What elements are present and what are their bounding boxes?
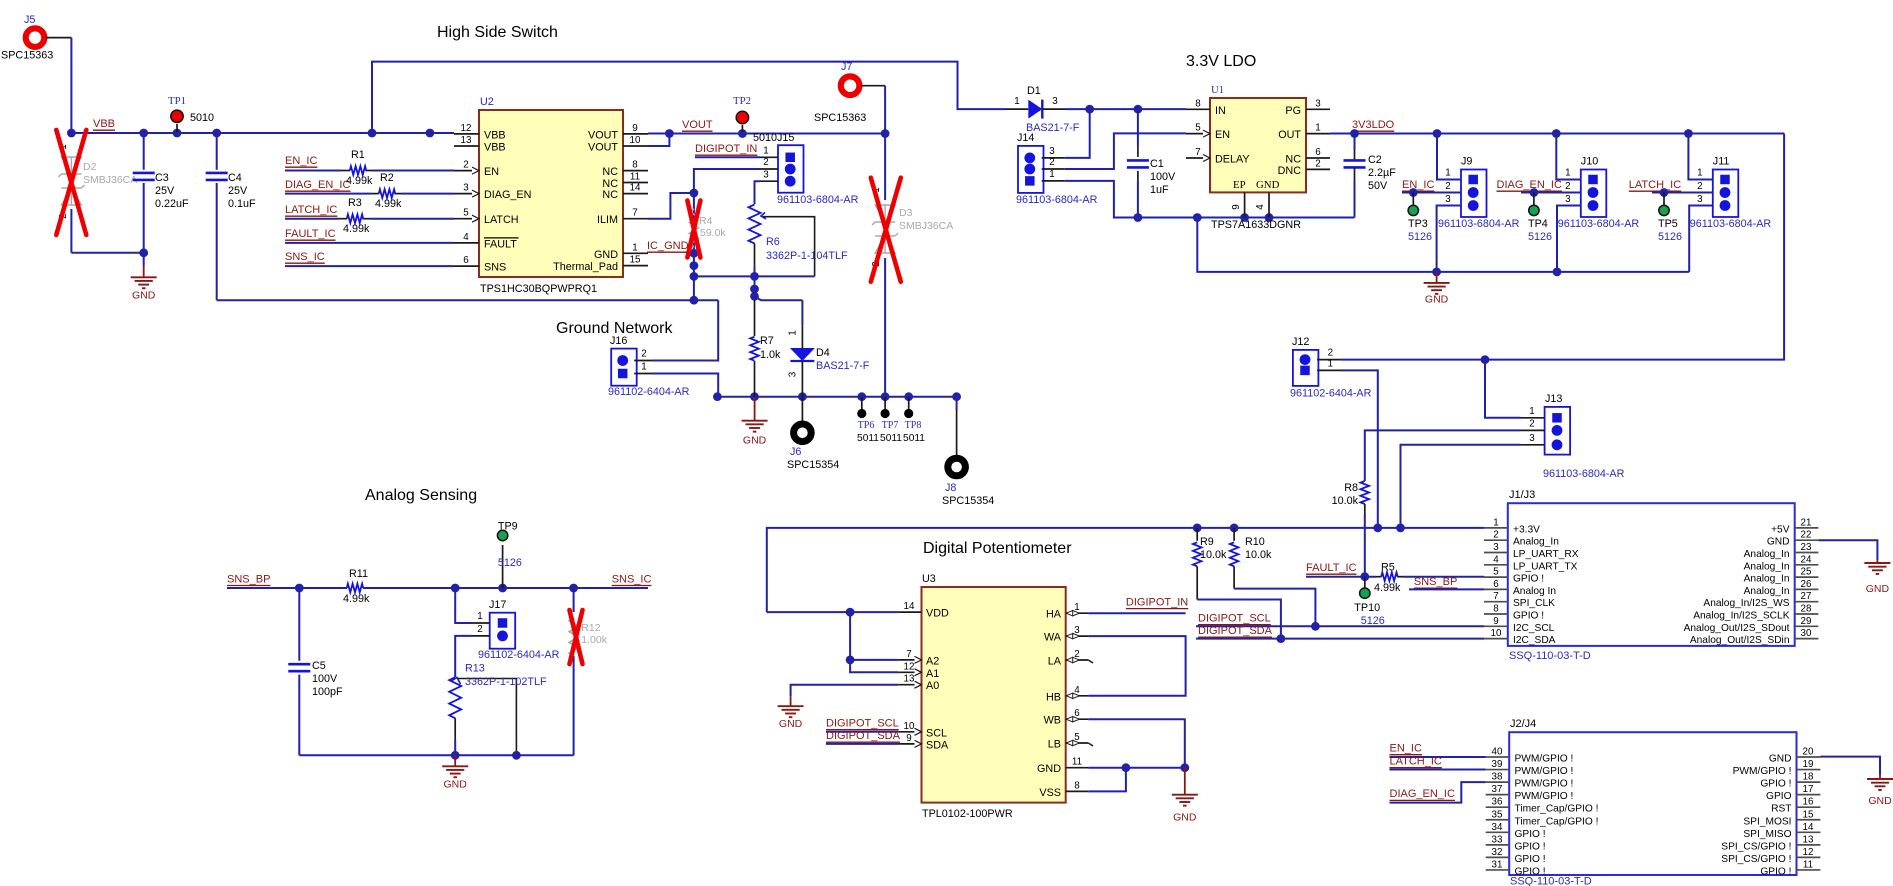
resistor R12 (not fitted) bbox=[573, 588, 575, 612]
svg-text:GPIO !: GPIO ! bbox=[1515, 866, 1546, 877]
svg-text:2: 2 bbox=[463, 160, 468, 171]
connector J7 bbox=[841, 76, 860, 95]
svg-text:17: 17 bbox=[1803, 784, 1814, 795]
svg-text:DIGIPOT_SDA: DIGIPOT_SDA bbox=[1198, 625, 1273, 637]
svg-text:100V: 100V bbox=[1150, 171, 1176, 183]
svg-text:1: 1 bbox=[1697, 168, 1702, 179]
test point TP6 bbox=[861, 397, 863, 409]
J1/J3 pin 2 Analog_In bbox=[1484, 539, 1508, 541]
svg-text:SPC15363: SPC15363 bbox=[814, 112, 866, 124]
regulator U1 TPS7A1633DGNR bbox=[1210, 98, 1306, 192]
svg-text:Analog_In: Analog_In bbox=[1744, 549, 1790, 560]
J2/J4 pin 19 PWM/GPIO ! bbox=[1797, 769, 1821, 771]
wire R4/R6 bottom rail bbox=[694, 275, 815, 277]
svg-text:1: 1 bbox=[788, 330, 799, 335]
svg-text:VDD: VDD bbox=[926, 608, 949, 620]
svg-text:3: 3 bbox=[1445, 194, 1451, 205]
J1/J3 pin 5 GPIO ! bbox=[1484, 576, 1508, 578]
U1 pin 6 NC bbox=[1306, 157, 1330, 159]
svg-text:LA: LA bbox=[1048, 656, 1062, 668]
svg-text:EN: EN bbox=[1215, 129, 1230, 141]
svg-text:J17: J17 bbox=[489, 599, 506, 611]
wire DIAG_EN_IC to J2 pin38 bbox=[1390, 782, 1486, 803]
wire J13 pin2 to R8 bbox=[1365, 430, 1521, 481]
svg-text:SPC15363: SPC15363 bbox=[1, 50, 53, 62]
svg-text:961103-6804-AR: 961103-6804-AR bbox=[1016, 194, 1098, 206]
ground bbox=[1184, 768, 1186, 795]
J2/J4 pin 33 GPIO ! bbox=[1486, 844, 1510, 846]
digipot U3 TPL0102-100PWR bbox=[922, 587, 1066, 803]
svg-text:R6: R6 bbox=[766, 236, 780, 248]
svg-text:5: 5 bbox=[463, 208, 469, 219]
svg-text:R2: R2 bbox=[380, 172, 394, 184]
svg-text:961103-6804-AR: 961103-6804-AR bbox=[1438, 218, 1520, 230]
connector J13 bbox=[1545, 407, 1571, 455]
svg-text:EN_IC: EN_IC bbox=[285, 155, 317, 167]
svg-text:J14: J14 bbox=[1017, 132, 1034, 144]
svg-text:12: 12 bbox=[904, 661, 915, 672]
svg-text:TPS1HC30BQPWPRQ1: TPS1HC30BQPWPRQ1 bbox=[480, 283, 597, 295]
svg-text:SNS_BP: SNS_BP bbox=[1414, 576, 1457, 588]
svg-text:LB: LB bbox=[1048, 739, 1061, 751]
U2 pin 2 EN bbox=[454, 170, 479, 172]
diode D4 bbox=[755, 296, 803, 300]
svg-text:DNC: DNC bbox=[1278, 165, 1302, 177]
svg-text:39: 39 bbox=[1492, 759, 1503, 770]
svg-text:I2C_SDA: I2C_SDA bbox=[1513, 635, 1556, 646]
U2 pin 7 ILIM bbox=[623, 218, 648, 220]
svg-text:LATCH_IC: LATCH_IC bbox=[1390, 756, 1442, 768]
wire D1 to U1 IN bbox=[1066, 108, 1186, 110]
svg-text:4.99k: 4.99k bbox=[343, 593, 370, 605]
svg-text:1: 1 bbox=[1049, 169, 1054, 180]
svg-text:PWM/GPIO !: PWM/GPIO ! bbox=[1515, 766, 1574, 777]
connector J15 bbox=[778, 145, 804, 193]
capacitor C4 bbox=[216, 133, 218, 170]
svg-text:13: 13 bbox=[1803, 834, 1814, 845]
svg-text:Analog In: Analog In bbox=[1513, 586, 1556, 597]
connector J16 bbox=[611, 349, 637, 386]
U1 pin 8 IN bbox=[1186, 108, 1210, 110]
svg-text:TPS7A1633DGNR: TPS7A1633DGNR bbox=[1211, 219, 1301, 231]
svg-text:A2: A2 bbox=[926, 655, 939, 667]
svg-text:2: 2 bbox=[763, 157, 768, 168]
test point TP4 bbox=[1533, 193, 1535, 206]
J2/J4 pin 20 GND bbox=[1797, 756, 1821, 758]
svg-text:3: 3 bbox=[1697, 194, 1703, 205]
svg-text:37: 37 bbox=[1492, 784, 1503, 795]
J1/J3 pin 26 Analog_In bbox=[1795, 588, 1819, 590]
wire U3 VSS bbox=[1088, 768, 1126, 792]
svg-text:Analog_Out/I2S_SDout: Analog_Out/I2S_SDout bbox=[1684, 623, 1790, 634]
J1/J3 pin 29 Analog_Out/I2S_SDout bbox=[1795, 625, 1819, 627]
svg-text:1uF: 1uF bbox=[1150, 184, 1169, 196]
svg-text:27: 27 bbox=[1801, 591, 1812, 602]
svg-text:EN_IC: EN_IC bbox=[1402, 179, 1434, 191]
svg-text:2: 2 bbox=[1328, 348, 1333, 359]
svg-text:PG: PG bbox=[1285, 105, 1301, 117]
svg-text:40: 40 bbox=[1492, 747, 1503, 758]
svg-text:J13: J13 bbox=[1545, 393, 1562, 405]
svg-text:6: 6 bbox=[463, 255, 469, 266]
svg-text:5011: 5011 bbox=[857, 433, 879, 444]
svg-text:PWM/GPIO !: PWM/GPIO ! bbox=[1515, 779, 1574, 790]
svg-text:SPI_MOSI: SPI_MOSI bbox=[1743, 816, 1791, 827]
svg-text:HB: HB bbox=[1046, 691, 1061, 703]
J1/J3 pin 6 Analog In bbox=[1484, 588, 1508, 590]
potentiometer R13 bbox=[449, 677, 461, 718]
svg-text:4.99k: 4.99k bbox=[375, 198, 402, 210]
svg-text:961102-6404-AR: 961102-6404-AR bbox=[478, 649, 560, 661]
test point TP9 bbox=[502, 545, 504, 588]
resistor R2 bbox=[379, 189, 395, 198]
svg-text:GND: GND bbox=[594, 249, 618, 261]
wire A2 A1 tie to VDD bbox=[850, 612, 898, 660]
svg-text:5126: 5126 bbox=[1658, 231, 1682, 243]
svg-text:1: 1 bbox=[1493, 517, 1498, 528]
svg-text:RST: RST bbox=[1771, 804, 1791, 815]
svg-text:GND: GND bbox=[1767, 537, 1790, 548]
svg-text:3V3LDO: 3V3LDO bbox=[1352, 119, 1395, 131]
U2 pin 13 VBB bbox=[454, 145, 479, 147]
svg-text:TP4: TP4 bbox=[1528, 218, 1548, 230]
wire 3V3LDO down right side to J12 rail bbox=[1341, 134, 1784, 360]
svg-text:14: 14 bbox=[904, 601, 915, 612]
wire DIGIPOT_SCL bbox=[1196, 625, 1484, 627]
wire D2/C3 to ground bbox=[71, 252, 143, 254]
connector J10 bbox=[1581, 170, 1607, 218]
svg-text:D3: D3 bbox=[899, 207, 913, 219]
ground bbox=[454, 755, 456, 766]
svg-text:25V: 25V bbox=[228, 185, 248, 197]
wire J11 pin3 to gnd bus bbox=[1689, 206, 1713, 272]
svg-text:+5V: +5V bbox=[1771, 524, 1790, 535]
svg-text:TP3: TP3 bbox=[1408, 218, 1428, 230]
svg-text:5: 5 bbox=[1195, 123, 1201, 134]
svg-text:Digital Potentiometer: Digital Potentiometer bbox=[923, 540, 1072, 557]
ground bbox=[1436, 272, 1438, 283]
svg-text:LATCH: LATCH bbox=[484, 214, 519, 226]
U2 pin 8 NC bbox=[623, 170, 648, 172]
svg-text:WA: WA bbox=[1044, 632, 1062, 644]
svg-text:HA: HA bbox=[1046, 609, 1062, 621]
U2 pin 4 FAULT bbox=[454, 242, 479, 244]
svg-text:14: 14 bbox=[1803, 822, 1814, 833]
U2 pin 6 SNS bbox=[454, 265, 479, 267]
wire J14 pin1 to gnd rail bbox=[1064, 181, 1354, 218]
J1/J3 pin 7 SPI_CLK bbox=[1484, 601, 1508, 603]
svg-text:J5: J5 bbox=[24, 14, 35, 26]
wire 3V3LDO to J9 pin1 bbox=[1437, 134, 1461, 180]
svg-text:TP1: TP1 bbox=[168, 95, 186, 107]
wire EN_IC bbox=[285, 170, 342, 172]
svg-text:2.2µF: 2.2µF bbox=[1368, 167, 1396, 179]
wire J15 pin3 to R6 bbox=[755, 181, 761, 204]
svg-text:9: 9 bbox=[1493, 616, 1498, 627]
wire DIGIPOT_IN to J15 pin1 bbox=[695, 156, 760, 158]
svg-text:R5: R5 bbox=[1381, 562, 1395, 574]
wire J12 pin1 to 3.3V rail bbox=[1341, 370, 1378, 528]
U3 pin 9 SDA bbox=[898, 743, 921, 745]
svg-text:GPIO !: GPIO ! bbox=[1515, 829, 1546, 840]
svg-text:29: 29 bbox=[1801, 616, 1812, 627]
svg-text:DIAG_EN_IC: DIAG_EN_IC bbox=[1497, 179, 1562, 191]
svg-text:SPI_MISO: SPI_MISO bbox=[1743, 829, 1791, 840]
svg-text:4.99k: 4.99k bbox=[1374, 582, 1401, 594]
svg-text:VBB: VBB bbox=[93, 118, 115, 130]
svg-text:3.3V LDO: 3.3V LDO bbox=[1186, 53, 1256, 70]
wire VDD from 3.3V rail bbox=[767, 611, 898, 613]
svg-text:GPIO !: GPIO ! bbox=[1760, 779, 1791, 790]
svg-text:GND: GND bbox=[1866, 583, 1890, 595]
svg-text:22: 22 bbox=[1801, 530, 1812, 541]
wire J13 pin1 from J12 rail bbox=[1485, 360, 1521, 418]
cross-out X over D2 bbox=[56, 130, 86, 235]
svg-text:4: 4 bbox=[463, 232, 469, 243]
svg-text:31: 31 bbox=[1492, 859, 1503, 870]
wire J2 pin20 GND bbox=[1820, 757, 1880, 775]
J2/J4 pin 11 GPIO ! bbox=[1797, 869, 1821, 871]
svg-text:TP5: TP5 bbox=[1658, 218, 1678, 230]
svg-text:J8: J8 bbox=[945, 482, 956, 494]
svg-text:961103-6804-AR: 961103-6804-AR bbox=[777, 194, 859, 206]
svg-text:Timer_Cap/GPIO !: Timer_Cap/GPIO ! bbox=[1515, 804, 1599, 815]
svg-text:13: 13 bbox=[904, 674, 915, 685]
svg-text:34: 34 bbox=[1492, 822, 1503, 833]
svg-text:EN: EN bbox=[484, 166, 499, 178]
svg-text:TP6: TP6 bbox=[858, 420, 875, 431]
svg-text:GND: GND bbox=[1769, 754, 1792, 765]
svg-text:SNS: SNS bbox=[484, 262, 506, 274]
test point TP7 bbox=[884, 397, 886, 409]
svg-text:1.0k: 1.0k bbox=[760, 349, 781, 361]
svg-text:GND: GND bbox=[1425, 293, 1449, 305]
resistor R3 bbox=[347, 214, 363, 223]
svg-text:GND: GND bbox=[1037, 763, 1061, 775]
connector J2/J4 SSQ-110-03-T-D bbox=[1509, 732, 1796, 875]
U2 pin 12 VBB bbox=[454, 133, 479, 135]
wire analog gnd rail bbox=[299, 754, 573, 756]
svg-text:1: 1 bbox=[763, 146, 768, 157]
svg-text:1: 1 bbox=[632, 242, 637, 253]
test point TP8 bbox=[908, 397, 910, 409]
svg-text:D1: D1 bbox=[1027, 85, 1041, 97]
svg-text:11: 11 bbox=[1803, 859, 1813, 870]
J1/J3 pin 22 GND bbox=[1795, 539, 1819, 541]
cross-out X over R12 bbox=[570, 610, 583, 664]
svg-text:TP10: TP10 bbox=[1354, 602, 1380, 614]
J1/J3 pin 27 Analog_In/I2S_WS bbox=[1795, 601, 1819, 603]
svg-text:DIGIPOT_IN: DIGIPOT_IN bbox=[1126, 596, 1188, 608]
svg-text:R8: R8 bbox=[1344, 482, 1358, 494]
ground bbox=[754, 397, 756, 421]
svg-text:GND: GND bbox=[1256, 179, 1280, 191]
svg-text:2: 2 bbox=[1697, 181, 1702, 192]
svg-text:D2: D2 bbox=[83, 161, 97, 173]
test point TP5 bbox=[1663, 193, 1665, 206]
svg-text:3: 3 bbox=[1529, 433, 1535, 444]
svg-text:LATCH_IC: LATCH_IC bbox=[1629, 179, 1681, 191]
resistor R5 bbox=[1376, 576, 1382, 578]
J2/J4 pin 34 GPIO ! bbox=[1486, 831, 1510, 833]
svg-text:4: 4 bbox=[1493, 554, 1499, 565]
svg-text:SNS_BP: SNS_BP bbox=[227, 573, 270, 585]
svg-text:VOUT: VOUT bbox=[588, 142, 618, 154]
svg-text:C3: C3 bbox=[155, 172, 169, 184]
wire 3V3LDO to J11 pin1 bbox=[1688, 134, 1712, 180]
wire long gnd rail y300 bbox=[217, 299, 719, 301]
svg-text:2: 2 bbox=[641, 349, 646, 360]
U2 pin 14 NC bbox=[623, 193, 648, 195]
svg-text:R4: R4 bbox=[699, 215, 713, 227]
wire J16 pin1 bbox=[652, 374, 718, 397]
wire DIAG_EN_IC to J10 pin2 bbox=[1521, 192, 1581, 194]
svg-text:961103-6804-AR: 961103-6804-AR bbox=[1690, 218, 1772, 230]
J1/J3 pin 9 I2C_SCL bbox=[1484, 625, 1508, 627]
svg-text:20: 20 bbox=[1803, 747, 1814, 758]
wire J1 pin22 GND bbox=[1818, 540, 1877, 560]
svg-text:8: 8 bbox=[632, 160, 638, 171]
capacitor C2 bbox=[1354, 134, 1356, 151]
U3 pin 7 A2 bbox=[898, 659, 921, 661]
svg-text:SPI_CS/GPIO !: SPI_CS/GPIO ! bbox=[1721, 854, 1791, 865]
svg-text:3: 3 bbox=[763, 169, 769, 180]
svg-text:1: 1 bbox=[1014, 96, 1019, 107]
tvs diode D2 (not fitted) bbox=[58, 157, 84, 205]
svg-text:10.0k: 10.0k bbox=[1200, 549, 1227, 561]
svg-text:100V: 100V bbox=[312, 673, 338, 685]
svg-text:14: 14 bbox=[630, 183, 641, 194]
svg-text:DIGIPOT_SCL: DIGIPOT_SCL bbox=[826, 718, 899, 730]
wire J16 pin2 bbox=[652, 300, 718, 360]
svg-text:SCL: SCL bbox=[926, 727, 947, 739]
U3 pin 3 WA bbox=[1066, 635, 1089, 637]
svg-text:10.0k: 10.0k bbox=[1332, 495, 1359, 507]
resistor R7 bbox=[754, 300, 756, 336]
svg-text:DIGIPOT_SDA: DIGIPOT_SDA bbox=[826, 730, 901, 742]
J2/J4 pin 18 GPIO ! bbox=[1797, 781, 1821, 783]
svg-text:3: 3 bbox=[463, 183, 469, 194]
svg-text:1: 1 bbox=[1328, 359, 1333, 370]
J1/J3 pin 24 Analog_In bbox=[1795, 564, 1819, 566]
wire U3 GND bbox=[1088, 767, 1185, 769]
svg-text:SPC15354: SPC15354 bbox=[942, 495, 994, 507]
svg-text:2: 2 bbox=[1049, 157, 1054, 168]
connector J17 bbox=[490, 613, 516, 649]
connector J12 bbox=[1293, 350, 1319, 386]
potentiometer R6 bbox=[749, 205, 761, 244]
wire FAULT_IC bbox=[285, 242, 454, 244]
J2/J4 pin 14 SPI_MISO bbox=[1797, 831, 1821, 833]
svg-text:Analog_In/I2S_SCLK: Analog_In/I2S_SCLK bbox=[1693, 611, 1789, 622]
tvs diode D3 (not fitted) bbox=[884, 134, 886, 201]
wire J17 pin2 down to R13 bbox=[455, 636, 472, 677]
svg-text:5126: 5126 bbox=[498, 557, 522, 569]
svg-text:9: 9 bbox=[906, 733, 911, 744]
resistor R8 bbox=[1361, 481, 1370, 504]
svg-text:2: 2 bbox=[477, 624, 482, 635]
svg-text:3362P-1-102TLF: 3362P-1-102TLF bbox=[465, 676, 547, 688]
connector J1/J3 SSQ-110-03-T-D bbox=[1508, 503, 1795, 646]
svg-text:23: 23 bbox=[1801, 542, 1812, 553]
svg-text:PWM/GPIO !: PWM/GPIO ! bbox=[1515, 791, 1574, 802]
svg-text:C2: C2 bbox=[1368, 154, 1382, 166]
wire EN_IC to J2 pin40 bbox=[1390, 756, 1486, 758]
capacitor C5 bbox=[298, 588, 300, 661]
svg-text:+3.3V: +3.3V bbox=[1513, 524, 1540, 535]
svg-text:C1: C1 bbox=[1150, 158, 1164, 170]
connector J11 bbox=[1713, 170, 1739, 218]
ground bbox=[790, 696, 792, 706]
wire J14 pin2 to U1 EN bbox=[1064, 133, 1186, 169]
svg-text:J10: J10 bbox=[1581, 156, 1598, 168]
connector J6 bbox=[801, 397, 803, 421]
svg-text:DIAG_EN_IC: DIAG_EN_IC bbox=[285, 179, 350, 191]
svg-text:GPIO !: GPIO ! bbox=[1513, 611, 1544, 622]
svg-text:WB: WB bbox=[1044, 715, 1061, 727]
connector J8 bbox=[956, 397, 958, 410]
svg-text:GPIO !: GPIO ! bbox=[1515, 854, 1546, 865]
svg-text:ILIM: ILIM bbox=[597, 214, 618, 226]
J1/J3 pin 10 I2C_SDA bbox=[1484, 638, 1508, 640]
U1 pin 5 EN bbox=[1186, 133, 1210, 135]
svg-text:3: 3 bbox=[788, 371, 799, 377]
svg-text:18: 18 bbox=[1803, 772, 1814, 783]
svg-text:5010: 5010 bbox=[190, 112, 214, 124]
svg-text:R10: R10 bbox=[1245, 536, 1265, 548]
svg-text:DIAG_EN: DIAG_EN bbox=[484, 189, 531, 201]
svg-text:Analog_In/I2S_WS: Analog_In/I2S_WS bbox=[1703, 598, 1789, 609]
svg-text:NC: NC bbox=[602, 189, 618, 201]
diode D1 bbox=[1006, 108, 1028, 110]
resistor R9 bbox=[1196, 528, 1198, 541]
svg-text:1: 1 bbox=[1529, 406, 1534, 417]
svg-text:Timer_Cap/GPIO !: Timer_Cap/GPIO ! bbox=[1515, 816, 1599, 827]
U1 pin 2 DNC bbox=[1306, 168, 1330, 170]
svg-text:961102-6404-AR: 961102-6404-AR bbox=[1290, 388, 1372, 400]
U2 pin 3 DIAG_EN bbox=[454, 193, 479, 195]
U2 pin 5 LATCH bbox=[454, 218, 479, 220]
svg-text:5126: 5126 bbox=[1361, 615, 1385, 627]
svg-text:Analog_In: Analog_In bbox=[1744, 561, 1790, 572]
cross-out X over R4 bbox=[687, 201, 700, 258]
U3 pin LB no-connect tick bbox=[1088, 743, 1093, 746]
svg-text:DIGIPOT_IN: DIGIPOT_IN bbox=[695, 143, 757, 155]
J2/J4 pin 12 SPI_CS/GPIO ! bbox=[1797, 856, 1821, 858]
svg-text:6: 6 bbox=[1315, 147, 1321, 158]
connector J9 bbox=[1461, 170, 1487, 218]
svg-text:Analog_In: Analog_In bbox=[1744, 586, 1790, 597]
wire VOUT bbox=[648, 133, 885, 135]
svg-text:10: 10 bbox=[630, 135, 641, 146]
svg-text:EN_IC: EN_IC bbox=[1390, 743, 1422, 755]
svg-text:VOUT: VOUT bbox=[588, 129, 618, 141]
svg-text:U2: U2 bbox=[480, 96, 494, 108]
svg-text:3: 3 bbox=[1049, 146, 1055, 157]
svg-text:Analog Sensing: Analog Sensing bbox=[365, 487, 477, 504]
svg-text:PWM/GPIO !: PWM/GPIO ! bbox=[1515, 754, 1574, 765]
wire HA to DIGIPOT_IN bbox=[1088, 612, 1185, 614]
svg-text:1: 1 bbox=[1445, 168, 1450, 179]
svg-text:GND: GND bbox=[1868, 795, 1892, 807]
svg-text:U3: U3 bbox=[922, 573, 936, 585]
svg-text:R11: R11 bbox=[349, 568, 368, 580]
U3 pin 1 HA bbox=[1066, 612, 1089, 614]
svg-text:High Side Switch: High Side Switch bbox=[437, 24, 558, 41]
svg-text:R13: R13 bbox=[465, 663, 485, 675]
wire EN_IC to J9 pin2 bbox=[1402, 192, 1437, 194]
wire +3.3V rail bbox=[767, 528, 1484, 612]
